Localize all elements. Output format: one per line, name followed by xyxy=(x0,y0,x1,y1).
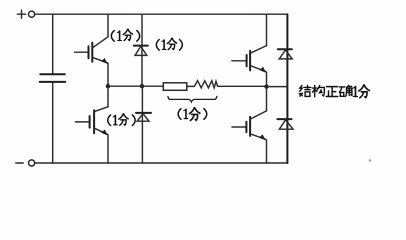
wire V2 emitter to bottom bus xyxy=(107,135,109,163)
terminal + (DC input positive) xyxy=(17,10,34,18)
wire left diode leg upper xyxy=(141,14,143,86)
wire right diode leg xyxy=(286,14,288,163)
IGBT V2 (lower left) xyxy=(75,107,108,136)
wire mid node to load R xyxy=(108,85,163,87)
junction left diode mid xyxy=(140,84,144,88)
wire right mid node to right diode leg xyxy=(267,86,288,88)
label 结构正确1分 (structure correct, 1 point) xyxy=(299,85,369,98)
wire bottom bus xyxy=(35,162,288,164)
wire top bus xyxy=(35,13,288,15)
wire capacitor leg lower xyxy=(52,82,54,163)
wire L to right mid node xyxy=(218,85,267,87)
wire V4 emitter to bottom bus xyxy=(266,140,268,163)
wire V3 emitter to right mid node xyxy=(266,72,268,86)
glyph 分 xyxy=(359,85,370,98)
label (1分) for V2 xyxy=(108,114,135,126)
glyph 1 xyxy=(353,86,357,96)
glyph 正 xyxy=(326,87,338,97)
IGBT V3 (upper right) xyxy=(232,46,267,73)
glyph 确 xyxy=(339,85,352,96)
junction left mid node xyxy=(106,84,110,88)
background paper xyxy=(0,0,406,171)
IGBT V1 (upper left) xyxy=(75,37,108,64)
wire left diode leg lower xyxy=(141,86,143,163)
brace under load (scoring bracket) xyxy=(168,96,217,102)
wire left IGBT leg top (collector V1) xyxy=(107,14,109,37)
inductor L (load, zigzag) xyxy=(194,81,217,88)
wire R to L xyxy=(187,85,195,87)
wire right IGBT leg top (collector V3) xyxy=(266,14,268,45)
wire capacitor leg upper xyxy=(52,14,54,74)
label (1分) for V1 xyxy=(111,29,139,41)
capacitor C xyxy=(40,74,65,82)
terminal - (DC input negative) xyxy=(16,160,35,166)
glyph 结 xyxy=(299,85,311,96)
wire right mid node to V4 collector xyxy=(266,87,268,111)
diode VD2 (lower left freewheel) xyxy=(136,113,151,121)
wire mid node to V2 collector xyxy=(107,86,109,107)
IGBT V4 (lower right) xyxy=(232,111,267,140)
label (1分) for VD1 xyxy=(156,38,182,50)
stray scan dot xyxy=(369,159,371,161)
resistor R (load) xyxy=(163,83,187,91)
diode VD3 (upper right freewheel) xyxy=(278,49,292,59)
glyph 构 xyxy=(312,85,324,96)
wire V1 emitter to mid node xyxy=(107,64,109,87)
diode VD4 (lower right freewheel) xyxy=(277,119,293,129)
junction right mid node xyxy=(264,84,268,88)
label (1分) for load xyxy=(178,108,207,121)
diode VD1 (upper left freewheel) xyxy=(134,46,148,56)
